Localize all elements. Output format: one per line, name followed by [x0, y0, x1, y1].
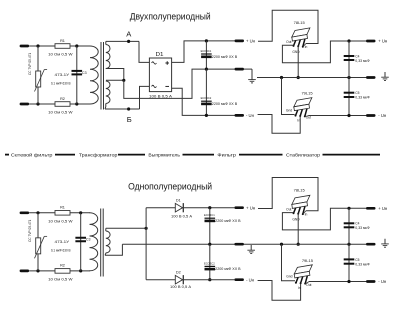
svg-text:R1: R1	[60, 206, 65, 210]
svg-text:2200 мкФ ХХ В: 2200 мкФ ХХ В	[212, 102, 238, 106]
bridge symbol ~ top	[152, 62, 157, 64]
value C4 (full-wave)	[355, 59, 370, 63]
pin label GND of 78L15 (half-wave)	[292, 217, 300, 221]
label R2 (half-wave)	[60, 264, 65, 268]
svg-text:0,33 мкФ: 0,33 мкФ	[355, 226, 370, 230]
svg-text:In: In	[305, 45, 308, 49]
transformer T1 core	[101, 42, 104, 110]
title half-wave	[128, 182, 212, 192]
value R1 (half-wave)	[48, 219, 73, 223]
input terminal upper (half-wave)	[20, 211, 30, 214]
title full-wave	[130, 12, 211, 22]
value C3 line1 (full-wave)	[55, 73, 70, 77]
svg-text:100 В 0,5 А: 100 В 0,5 А	[149, 94, 173, 98]
node varistor top (half-wave)	[36, 211, 39, 214]
svg-text:Фильтр: Фильтр	[217, 152, 236, 157]
terminal 0 rect half	[234, 243, 244, 246]
label 79L15 (full-wave)	[301, 91, 313, 96]
node C5 bottom (full-wave)	[347, 114, 350, 117]
ground symbol right (full-wave)	[381, 72, 389, 81]
capacitor C4 branch (half-wave)	[348, 208, 350, 244]
value C2	[212, 102, 238, 106]
pin label In of 79L15 (half-wave)	[298, 286, 301, 290]
label -U output (half-wave)	[378, 279, 387, 284]
svg-text:100 В 0,5 А: 100 В 0,5 А	[170, 285, 192, 289]
svg-text:In: In	[305, 212, 308, 216]
node C2 minus	[205, 114, 208, 117]
svg-text:D1: D1	[176, 198, 181, 202]
transformer T2 secondary winding	[105, 228, 110, 255]
wire C3 branch (half-wave)	[80, 213, 82, 271]
resistor R1 (half-wave)	[55, 211, 70, 216]
svg-text:ЕСО3С2: ЕСО3С2	[204, 261, 215, 265]
legend dash 3	[118, 154, 145, 156]
designation C1	[201, 49, 212, 53]
capacitor C3 (full-wave)	[72, 71, 83, 75]
value C1 half	[215, 219, 241, 223]
wire mid rail stub to ground	[244, 68, 252, 70]
pin label Gnd of 79L15 (half-wave)	[286, 275, 292, 279]
pin label Out of 79L15 (full-wave)	[306, 116, 311, 120]
capacitor C5 branch (half-wave)	[348, 244, 350, 281]
svg-text:Стабилизатор: Стабилизатор	[286, 152, 321, 157]
wire node B up to bridge	[140, 86, 150, 109]
capacitor C2 half	[205, 266, 216, 269]
value bridge D1	[149, 94, 173, 98]
svg-text:10 Ом 0,5 W: 10 Ом 0,5 W	[48, 219, 73, 223]
svg-text:Out: Out	[286, 207, 291, 211]
wire varistor branch (full-wave)	[37, 46, 39, 104]
wire 79L15 Out to -U rail (half-wave)	[309, 281, 366, 283]
svg-text:2200 мкФ ХХ В: 2200 мкФ ХХ В	[215, 219, 241, 223]
svg-text:Out: Out	[286, 40, 291, 44]
svg-text:- Uн: - Uн	[378, 279, 387, 284]
svg-text:Трансформатор: Трансформатор	[79, 152, 118, 157]
value R2 (full-wave)	[48, 111, 73, 115]
svg-text:In: In	[298, 286, 301, 290]
svg-text:Б: Б	[127, 115, 132, 124]
svg-text:ЕСО3С1: ЕСО3С1	[204, 213, 215, 217]
input terminal lower (half-wave)	[20, 270, 30, 273]
legend dash 5	[239, 154, 283, 156]
wire secondary center tap	[106, 69, 124, 81]
resistor R2 (full-wave)	[55, 102, 70, 107]
node varistor top (full-wave)	[36, 44, 39, 47]
svg-text:C3: C3	[86, 238, 91, 242]
input terminal lower (full-wave)	[20, 103, 30, 106]
transformer T1 primary winding	[90, 46, 98, 104]
value D1 diode	[171, 215, 193, 219]
svg-text:СС ТVР 05.471: СС ТVР 05.471	[28, 53, 32, 76]
node C4 top (full-wave)	[347, 39, 350, 42]
capacitor C2 branch half	[209, 244, 211, 280]
svg-text:473-1У: 473-1У	[55, 240, 70, 244]
wire -U input to 79L15 In (full-wave)	[258, 115, 301, 134]
capacitor C4 (full-wave)	[344, 56, 355, 60]
label C4 (half-wave)	[355, 222, 359, 226]
label node B	[127, 115, 132, 124]
svg-text:0,33 мкФ: 0,33 мкФ	[355, 59, 370, 63]
pin label In of 79L15 (full-wave)	[297, 119, 300, 123]
pin label Out of 78L15 (half-wave)	[286, 207, 291, 211]
value C4 (half-wave)	[355, 226, 370, 230]
node C5 bottom (half-wave)	[347, 280, 350, 283]
label C4 (full-wave)	[355, 54, 359, 58]
wire input bottom (half-wave)	[29, 270, 55, 272]
varistor RU (half-wave)	[35, 236, 48, 258]
svg-text:C4: C4	[355, 222, 359, 226]
node C1C2 mid	[205, 68, 208, 71]
svg-text:79L15: 79L15	[301, 91, 313, 96]
wire input top (full-wave)	[29, 45, 55, 47]
wire R2 to transformer (full-wave)	[70, 103, 90, 105]
wire 78L15 Out U-route (full-wave)	[282, 41, 366, 63]
label C3 (half-wave)	[86, 238, 91, 242]
pin label In of 78L15 (full-wave)	[305, 45, 308, 49]
capacitor C2	[201, 101, 212, 104]
svg-text:R2: R2	[60, 264, 65, 268]
value C2 half	[215, 267, 241, 271]
wire mid rail (full-wave)	[257, 77, 366, 79]
regulator 78L15 package (half-wave)	[292, 195, 310, 215]
designation C2 half	[204, 261, 215, 265]
legend dash 4	[183, 154, 215, 156]
wire -U input to 79L15 In (half-wave)	[258, 281, 301, 301]
terminal +U output (half-wave)	[366, 207, 376, 210]
terminal + rect half	[234, 206, 244, 209]
svg-text:In: In	[297, 119, 300, 123]
value C5 (full-wave)	[355, 96, 370, 100]
svg-text:+ Uн: + Uн	[378, 39, 388, 44]
label +U output (half-wave)	[378, 206, 388, 211]
varistor vertical label (half-wave)	[28, 219, 32, 242]
designation C2	[201, 96, 212, 100]
label R1 (full-wave)	[60, 39, 65, 43]
wire secondary lower to node B	[105, 108, 140, 110]
svg-text:0,33 мкФ: 0,33 мкФ	[355, 96, 370, 100]
bridge rectifier D1 body	[149, 58, 171, 92]
legend label rectifier	[148, 152, 180, 157]
legend dash 1	[5, 154, 9, 156]
node C3 top (half-wave)	[79, 211, 82, 214]
wire varistor branch (half-wave)	[37, 213, 39, 271]
terminal 0 rectifier	[235, 68, 245, 71]
wire bridge minus out	[172, 88, 235, 115]
value R2 (half-wave)	[48, 277, 73, 281]
capacitor C1 branch half	[209, 208, 211, 245]
terminal -U output (full-wave)	[366, 114, 376, 117]
wire phase branch vertical	[145, 208, 147, 280]
value C3 line2 (half-wave)	[51, 248, 71, 252]
node B	[127, 107, 130, 110]
wire R1 to transformer (full-wave)	[70, 45, 90, 47]
node varistor bottom (full-wave)	[36, 102, 39, 105]
label C5 (full-wave)	[355, 91, 359, 95]
svg-text:79L15: 79L15	[302, 258, 314, 263]
diode D1	[175, 203, 183, 212]
wire 79L15 Out to -U rail (full-wave)	[309, 115, 367, 117]
capacitor C5 branch (full-wave)	[348, 78, 350, 116]
bridge symbol - bottom	[165, 85, 169, 87]
terminal +U output (full-wave)	[366, 40, 376, 43]
transformer T2 primary winding	[90, 213, 98, 271]
legend label filter	[217, 152, 236, 157]
wire 78L15 Out U-route (half-wave)	[282, 208, 366, 230]
wire 78L15 In connector (full-wave)	[303, 44, 306, 47]
label + rect half	[246, 205, 256, 210]
legend dash 2	[55, 154, 75, 156]
svg-text:2200 мкФ ХХ В: 2200 мкФ ХХ В	[212, 55, 238, 59]
bridge symbol + top	[165, 61, 169, 65]
wire mid rail (half-wave)	[257, 243, 366, 245]
svg-text:- Uн: - Uн	[246, 277, 255, 282]
resistor R2 (half-wave)	[55, 269, 70, 274]
svg-text:D1: D1	[156, 52, 164, 58]
label +U output (full-wave)	[378, 39, 388, 44]
svg-text:0,1 мкФ 630 В: 0,1 мкФ 630 В	[51, 248, 71, 252]
wire R1 to transformer (half-wave)	[70, 212, 90, 214]
node C4C5 mid (full-wave)	[347, 76, 350, 79]
node C3 bottom (half-wave)	[79, 269, 82, 272]
svg-text:R2: R2	[60, 97, 65, 101]
svg-text:C5: C5	[355, 258, 359, 262]
transformer T2 core	[101, 209, 104, 277]
svg-text:GND: GND	[292, 217, 300, 221]
svg-text:473-1У: 473-1У	[55, 73, 70, 77]
wire D2 row	[146, 279, 234, 281]
node varistor bottom (half-wave)	[36, 269, 39, 272]
value C3 line2 (full-wave)	[51, 82, 71, 86]
varistor vertical label (full-wave)	[28, 53, 32, 76]
svg-text:100 В 0,5 А: 100 В 0,5 А	[171, 215, 193, 219]
capacitor C1 half	[205, 218, 216, 221]
node C2 minus half	[208, 278, 211, 281]
node 79L15 GND branch (full-wave)	[280, 76, 283, 79]
value C5 (half-wave)	[355, 262, 370, 266]
wire input bottom (full-wave)	[29, 103, 55, 105]
node C1C2 mid half	[208, 243, 211, 246]
label D1 bridge	[156, 52, 164, 58]
svg-text:+ Uн: + Uн	[378, 206, 388, 211]
wire mid rail left half	[122, 243, 257, 245]
svg-text:0,33 мкФ: 0,33 мкФ	[355, 262, 370, 266]
bridge symbol ~ bottom	[152, 85, 157, 87]
value C3 line1 (half-wave)	[55, 240, 70, 244]
regulator 79L15 package (full-wave)	[294, 98, 312, 118]
value R1 (full-wave)	[48, 53, 73, 57]
diode D2	[175, 275, 183, 284]
label node A	[126, 30, 132, 39]
designation C1 half	[204, 213, 215, 217]
svg-text:C3: C3	[82, 71, 87, 75]
label 78L15 (full-wave)	[294, 20, 306, 25]
wire C3 branch (full-wave)	[76, 46, 78, 104]
capacitor C5 (full-wave)	[344, 93, 355, 97]
legend label transformer	[79, 152, 118, 157]
node C4 top (half-wave)	[347, 207, 350, 210]
label - rect half	[246, 277, 255, 282]
svg-text:10 Ом 0,5 W: 10 Ом 0,5 W	[48, 53, 73, 57]
pin label GND of 78L15 (full-wave)	[292, 50, 300, 54]
wire 79L15 Out connector (full-wave)	[305, 116, 309, 117]
label D2 diode	[176, 271, 181, 275]
capacitor C1	[201, 54, 212, 57]
svg-text:Выпрямитель: Выпрямитель	[148, 152, 180, 157]
wire 79L15 Out connector (half-wave)	[305, 282, 309, 284]
label R1 (half-wave)	[60, 206, 65, 210]
wire secondary return	[105, 244, 122, 255]
svg-text:0,1 мкФ 630 В: 0,1 мкФ 630 В	[51, 82, 71, 86]
capacitor C4 branch (full-wave)	[348, 41, 350, 78]
svg-text:10 Ом 0,5 W: 10 Ом 0,5 W	[48, 111, 73, 115]
terminal 0V output (half-wave)	[366, 243, 376, 246]
label 79L15 (half-wave)	[302, 258, 314, 263]
svg-text:+ Uн: + Uн	[246, 205, 256, 210]
svg-text:GND: GND	[292, 50, 300, 54]
svg-text:+ Uн: + Uн	[246, 39, 256, 44]
svg-text:Двухполупериодный: Двухполупериодный	[130, 12, 211, 22]
input terminal upper (full-wave)	[20, 45, 30, 48]
pin label Gnd of 79L15 (full-wave)	[286, 108, 292, 112]
pin label Out of 78L15 (full-wave)	[286, 40, 291, 44]
wire +U input to over-route (full-wave)	[258, 10, 318, 43]
svg-text:ЕСО3С1: ЕСО3С1	[201, 49, 212, 53]
svg-text:Gnd: Gnd	[286, 275, 292, 279]
label + rectifier	[246, 39, 256, 44]
svg-text:D2: D2	[176, 271, 181, 275]
label - rectifier	[246, 113, 255, 118]
terminal + rectifier	[235, 40, 245, 43]
ground symbol rect mid half	[247, 245, 255, 254]
regulator 78L15 package (full-wave)	[292, 28, 310, 48]
capacitor C2 branch	[205, 69, 207, 115]
node C3 bottom (full-wave)	[75, 102, 78, 105]
wire center tap to mid rail	[124, 69, 235, 98]
svg-text:78L15: 78L15	[294, 20, 306, 25]
svg-text:Сетевой фильтр: Сетевой фильтр	[11, 152, 53, 157]
legend label stabilizer	[286, 152, 321, 157]
regulator 79L15 package (half-wave)	[294, 265, 312, 285]
svg-text:- Uн: - Uн	[378, 113, 387, 118]
terminal - rectifier	[235, 114, 245, 117]
svg-text:2200 мкФ ХХ В: 2200 мкФ ХХ В	[215, 267, 241, 271]
terminal - rect half	[234, 278, 244, 281]
ground symbol right (half-wave)	[381, 239, 389, 248]
node center tap	[122, 79, 125, 82]
wire +U input to over-route (half-wave)	[258, 178, 318, 211]
svg-text:ЕСО3С2: ЕСО3С2	[201, 96, 212, 100]
wire 79L15 GND branch (half-wave)	[282, 244, 296, 281]
wire bridge plus out	[172, 41, 235, 63]
node C1 plus	[205, 39, 208, 42]
pin label Out of 79L15 (half-wave)	[306, 283, 311, 287]
node C4C5 mid (half-wave)	[347, 243, 350, 246]
terminal -U output (half-wave)	[366, 280, 376, 283]
label -U output (full-wave)	[378, 113, 387, 118]
label R2 (full-wave)	[60, 97, 65, 101]
node phase	[145, 227, 148, 230]
capacitor C4 (half-wave)	[344, 223, 355, 227]
svg-text:Out: Out	[306, 283, 311, 287]
wire secondary top to phase node	[106, 227, 146, 229]
svg-text:10 Ом 0,5 W: 10 Ом 0,5 W	[48, 277, 73, 281]
svg-text:78L15: 78L15	[294, 187, 306, 192]
wire 78L15 In connector (half-wave)	[303, 211, 306, 214]
node 78L15 GND on mid rail (full-wave)	[297, 76, 300, 79]
node C1 plus half	[208, 206, 211, 209]
wire R2 to transformer (half-wave)	[70, 270, 90, 272]
pin label In of 78L15 (half-wave)	[305, 212, 308, 216]
legend dash 6	[323, 154, 381, 156]
svg-text:СС ТVР 05.471: СС ТVР 05.471	[28, 219, 32, 242]
svg-text:R1: R1	[60, 39, 65, 43]
wire 78L15 GND leg (full-wave)	[297, 46, 299, 78]
svg-text:- Uн: - Uн	[246, 113, 255, 118]
node 79L15 GND branch (half-wave)	[280, 243, 283, 246]
ground symbol rectifier mid	[248, 69, 256, 83]
node 78L15 GND on mid rail (half-wave)	[297, 243, 300, 246]
varistor RU (full-wave)	[35, 70, 48, 92]
resistor R1 (full-wave)	[55, 44, 70, 49]
terminal 0V output (full-wave)	[366, 76, 376, 79]
value C1	[212, 55, 238, 59]
wire node A down to bridge	[139, 41, 149, 62]
capacitor C1 branch	[205, 41, 207, 69]
transformer T1 secondary lower winding	[105, 81, 110, 109]
wire secondary upper to node A	[106, 40, 139, 42]
label 78L15 (half-wave)	[294, 187, 306, 192]
wire input top (half-wave)	[29, 212, 55, 214]
node A	[127, 40, 130, 43]
capacitor C5 (half-wave)	[344, 259, 355, 263]
capacitor C3 (half-wave)	[75, 238, 86, 242]
svg-text:C4: C4	[355, 54, 359, 58]
wire 78L15 GND leg (half-wave)	[297, 213, 299, 244]
wire 79L15 GND branch (full-wave)	[282, 78, 295, 115]
node C3 top (full-wave)	[75, 44, 78, 47]
transformer T1 secondary upper winding	[106, 41, 110, 68]
svg-text:Gnd: Gnd	[286, 108, 292, 112]
svg-text:Однополупериодный: Однополупериодный	[128, 182, 212, 192]
svg-text:C5: C5	[355, 91, 359, 95]
legend label mains filter	[11, 152, 53, 157]
value D2 diode	[170, 285, 192, 289]
label C3 (full-wave)	[82, 71, 87, 75]
label C5 (half-wave)	[355, 258, 359, 262]
label D1 diode	[176, 198, 181, 202]
wire D1 row	[146, 207, 234, 209]
